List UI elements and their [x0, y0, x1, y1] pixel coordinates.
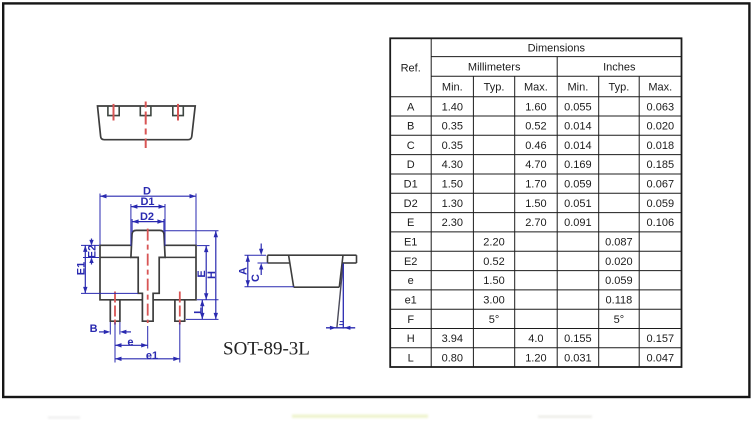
- svg-text:0.087: 0.087: [605, 237, 633, 249]
- front view: shoulder step line E2 left: [100, 256, 131, 258]
- svg-text:0.169: 0.169: [564, 159, 592, 171]
- svg-text:0.031: 0.031: [564, 352, 592, 364]
- svg-text:Ref.: Ref.: [401, 63, 421, 75]
- svg-text:0.014: 0.014: [564, 121, 592, 133]
- dimension D: [100, 194, 196, 245]
- dimension A: [245, 255, 295, 287]
- top view: notch pin 3: [173, 106, 184, 116]
- front view: shoulder step line E2 right: [165, 256, 196, 258]
- front view: right lead: [175, 300, 185, 321]
- svg-text:2.30: 2.30: [442, 217, 463, 229]
- svg-text:1.70: 1.70: [525, 179, 546, 191]
- lead angle F detail: [326, 264, 355, 330]
- front view: centerline middle axis: [147, 229, 149, 323]
- dimension D1: [131, 204, 165, 246]
- front view: tab and center lead outline: [131, 230, 165, 321]
- svg-text:B: B: [407, 121, 414, 133]
- svg-text:0.014: 0.014: [564, 140, 592, 152]
- svg-text:L: L: [192, 307, 204, 314]
- svg-text:3.94: 3.94: [442, 333, 463, 345]
- svg-text:e1: e1: [405, 295, 417, 307]
- dimension C: [258, 244, 269, 276]
- svg-text:0.118: 0.118: [606, 295, 633, 307]
- svg-text:SOT-89-3L: SOT-89-3L: [223, 339, 310, 360]
- dimension E2: [83, 239, 99, 265]
- front view: centerline left lead: [114, 292, 116, 325]
- svg-text:C: C: [250, 274, 262, 282]
- svg-text:0.155: 0.155: [564, 333, 592, 345]
- svg-text:0.020: 0.020: [605, 256, 633, 268]
- svg-text:4.70: 4.70: [525, 159, 546, 171]
- svg-text:A: A: [407, 101, 415, 113]
- svg-text:Max.: Max.: [524, 82, 548, 94]
- svg-text:1.40: 1.40: [442, 101, 463, 113]
- svg-text:E1: E1: [76, 262, 88, 275]
- svg-text:0.46: 0.46: [525, 140, 546, 152]
- svg-text:0.059: 0.059: [647, 198, 675, 210]
- svg-text:B: B: [90, 323, 98, 335]
- svg-text:0.059: 0.059: [564, 179, 592, 191]
- svg-text:Millimeters: Millimeters: [468, 62, 521, 74]
- svg-text:0.059: 0.059: [605, 275, 633, 287]
- side view: lead strip and body outline: [268, 255, 357, 287]
- svg-text:F: F: [407, 314, 414, 326]
- table data text: [404, 101, 674, 364]
- svg-text:0.106: 0.106: [647, 217, 675, 229]
- svg-text:0.051: 0.051: [564, 198, 592, 210]
- svg-text:0.185: 0.185: [647, 159, 675, 171]
- svg-text:4.30: 4.30: [442, 159, 463, 171]
- svg-text:e: e: [408, 275, 414, 287]
- svg-text:5°: 5°: [489, 314, 500, 326]
- svg-text:0.020: 0.020: [647, 121, 675, 133]
- svg-text:4.0: 4.0: [528, 333, 543, 345]
- table header text: [401, 42, 673, 93]
- top view: centerline pin 3: [177, 104, 179, 121]
- dimension D2: [132, 219, 164, 232]
- svg-text:Inches: Inches: [603, 62, 636, 74]
- svg-text:0.52: 0.52: [483, 256, 504, 268]
- svg-text:e1: e1: [146, 350, 158, 362]
- front view: left lead: [110, 300, 120, 321]
- dimension L: [200, 300, 204, 320]
- dimension E: [197, 246, 219, 300]
- svg-text:3.00: 3.00: [483, 295, 504, 307]
- svg-text:D2: D2: [404, 198, 418, 210]
- side view: bent lead: [337, 264, 343, 328]
- faint bottom watermark smudge: [292, 415, 428, 418]
- svg-text:0.091: 0.091: [564, 217, 592, 229]
- svg-text:0.52: 0.52: [525, 121, 546, 133]
- top view: centerline pin 2 (vertical axis): [145, 102, 147, 149]
- svg-text:5°: 5°: [614, 314, 625, 326]
- svg-text:E2: E2: [86, 245, 98, 258]
- svg-text:C: C: [407, 140, 415, 152]
- svg-text:A: A: [237, 267, 249, 275]
- dimensions table grid: [390, 38, 681, 367]
- front view: centerline right lead: [179, 292, 181, 325]
- dimension B: [99, 322, 131, 335]
- svg-text:0.063: 0.063: [647, 101, 675, 113]
- svg-text:0.055: 0.055: [564, 101, 592, 113]
- svg-text:H: H: [206, 271, 218, 279]
- svg-text:1.50: 1.50: [483, 275, 504, 287]
- svg-text:2.20: 2.20: [483, 237, 504, 249]
- svg-text:Typ.: Typ.: [484, 82, 505, 94]
- svg-text:1.50: 1.50: [525, 198, 546, 210]
- front view: body outline: [100, 245, 196, 299]
- svg-text:0.047: 0.047: [647, 352, 675, 364]
- svg-text:1.30: 1.30: [442, 198, 463, 210]
- svg-text:D: D: [407, 159, 415, 171]
- svg-text:0.35: 0.35: [442, 121, 463, 133]
- svg-text:1.50: 1.50: [442, 179, 463, 191]
- svg-text:Min.: Min.: [568, 82, 589, 94]
- svg-text:0.80: 0.80: [442, 352, 463, 364]
- svg-text:L: L: [408, 352, 414, 364]
- top view: package body outline: [98, 106, 196, 140]
- svg-text:D2: D2: [140, 211, 154, 223]
- svg-text:H: H: [407, 333, 415, 345]
- svg-text:D1: D1: [404, 179, 418, 191]
- svg-text:Dimensions: Dimensions: [528, 42, 586, 54]
- svg-text:0.35: 0.35: [442, 140, 463, 152]
- svg-text:1.20: 1.20: [525, 352, 546, 364]
- dimension e: [115, 323, 148, 363]
- dimension E1: [81, 245, 138, 293]
- svg-text:0.067: 0.067: [647, 179, 675, 191]
- svg-text:2.70: 2.70: [525, 217, 546, 229]
- svg-text:D1: D1: [140, 196, 154, 208]
- svg-text:E: E: [407, 217, 414, 229]
- svg-text:0.018: 0.018: [647, 140, 675, 152]
- svg-text:E1: E1: [404, 237, 417, 249]
- svg-text:Min.: Min.: [442, 82, 463, 94]
- svg-text:E2: E2: [404, 256, 417, 268]
- top view: centerline pin 1: [113, 104, 115, 121]
- svg-text:0.157: 0.157: [647, 333, 675, 345]
- svg-text:1.60: 1.60: [525, 101, 546, 113]
- dimension H: [166, 231, 219, 320]
- svg-text:Max.: Max.: [648, 82, 672, 94]
- top view: notch pin 1: [108, 106, 119, 116]
- svg-text:e: e: [127, 337, 133, 349]
- top view: notch pin 2: [140, 106, 151, 116]
- dimension e1: [115, 323, 180, 363]
- svg-text:Typ.: Typ.: [609, 82, 630, 94]
